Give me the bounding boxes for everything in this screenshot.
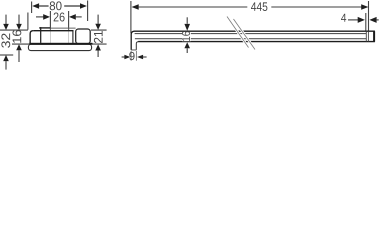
left bend inner edge (stem right) [136,42,138,50]
upper bar top edge [33,30,73,32]
extension line y44 right of view [92,43,106,45]
dimension 16 (vertical, left inner) [12,15,21,62]
end groove divider lines [365,31,367,41]
thick band (bar bottom edge) [29,43,92,45]
extension line y30 right of view [91,29,107,31]
dimension 445 [131,1,369,33]
break mark diagonals [227,17,249,48]
bar top edge [134,30,375,32]
stem bottom [131,49,136,51]
cap divider vertical x40.7 [40,27,42,43]
end square (post plate) [76,29,91,44]
divider vertical x72.9 [72,31,74,43]
end cap [373,31,375,42]
dimension 4 (near right end) [341,13,379,31]
dimension 21 (vertical, right of left view) [93,15,102,57]
upper bar left rounded edge [30,31,33,43]
lower bar (second rail) [28,44,91,50]
extension line top-left (y30) [0,29,28,31]
dimension 26 (horizontal, second row) [36,11,82,43]
bar inner highlight lines [135,33,366,35]
dimension 32 (vertical, far left) [1,15,10,70]
extension line y55 far-left [0,54,13,56]
inner top line [39,27,50,29]
dimension 9 (below stem) [122,51,147,61]
bar bottom edge [138,41,375,43]
extension line y44 left [12,43,29,45]
left bend outer edge [131,31,134,50]
dimension 80 (horizontal top) [32,1,88,22]
dimension 16 (vertical on bar) [182,17,191,53]
